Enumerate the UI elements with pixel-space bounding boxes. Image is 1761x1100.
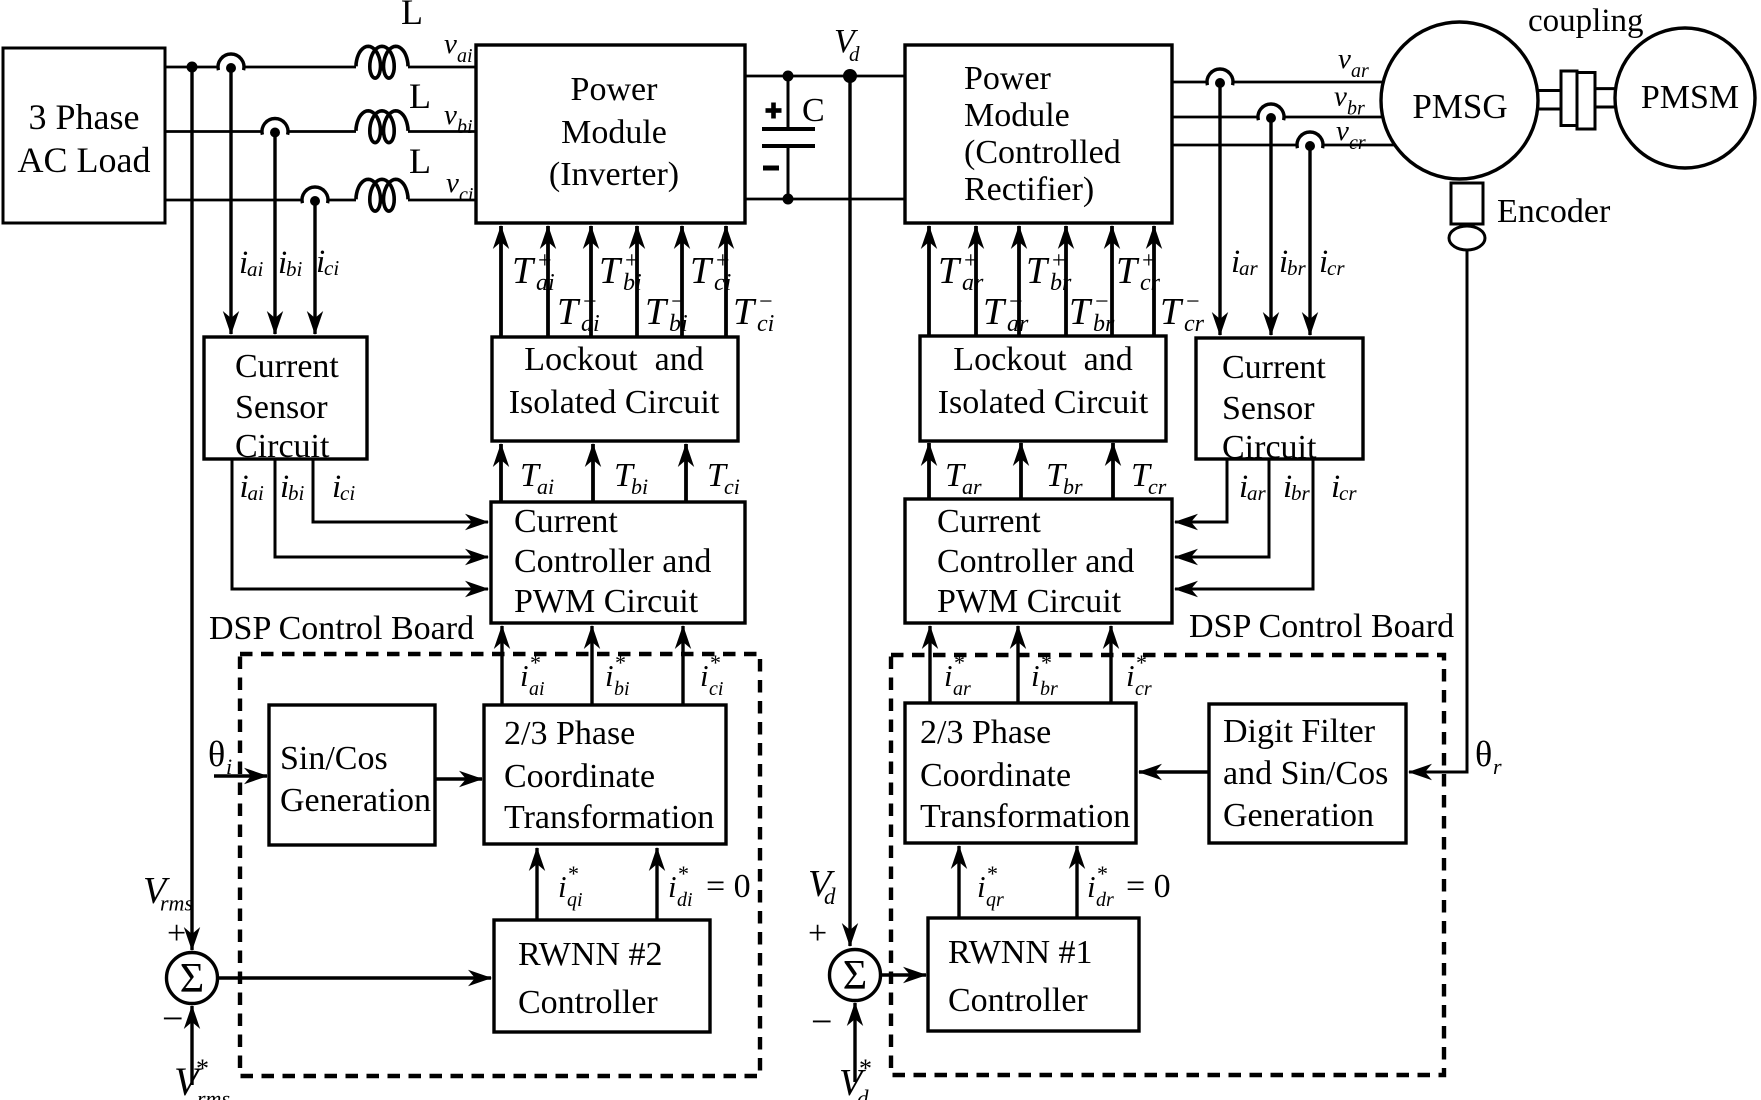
wire: i*_qr RWNN#1 to transform xyxy=(957,846,960,918)
wire: i_ai feedback into PWM (inverter side) xyxy=(232,459,488,589)
wire: gate signal 1 lockout to inverter xyxy=(499,226,503,337)
svg-text:ci: ci xyxy=(714,270,731,296)
svg-text:ai: ai xyxy=(247,257,264,281)
svg-text:*: * xyxy=(859,1054,872,1083)
wire: i_ci feedback into PWM (inverter side) xyxy=(313,459,488,522)
svg-text:ai: ai xyxy=(248,481,265,505)
svg-text:Circuit: Circuit xyxy=(235,428,330,465)
svg-text:*: * xyxy=(1136,650,1147,675)
wire: theta_r from encoder to Digit Filter xyxy=(1409,250,1467,772)
label: T+_ar xyxy=(938,248,984,296)
wire: gate signal 4 lockout to rectifier xyxy=(1064,226,1068,336)
wire: T_bi PWM to lockout (inverter side) xyxy=(591,444,595,502)
svg-text:−: − xyxy=(811,1001,832,1043)
label: V*_rms xyxy=(174,1054,230,1100)
svg-text:*: * xyxy=(530,650,541,675)
svg-text:Module: Module xyxy=(561,114,667,151)
svg-text:*: * xyxy=(710,650,721,675)
capacitor C (DC link) xyxy=(762,76,815,199)
label: i*_ci xyxy=(700,650,723,700)
svg-text:ci: ci xyxy=(709,678,723,700)
svg-text:bi: bi xyxy=(457,116,473,138)
wire: T_ci PWM to lockout (inverter side) xyxy=(684,444,688,502)
svg-text:bi: bi xyxy=(623,270,642,296)
label: T+_ci xyxy=(690,248,731,296)
label: T+_bi xyxy=(599,248,642,296)
label: v_br xyxy=(1334,81,1365,120)
label: i_br (feedback) xyxy=(1283,469,1311,505)
wire: i*_cr reference into PWM (rectifier side) xyxy=(1109,626,1112,703)
svg-text:cr: cr xyxy=(1327,256,1345,280)
svg-text:Current: Current xyxy=(514,503,618,540)
wire: gate signal 3 lockout to rectifier xyxy=(1017,226,1021,336)
shaft coupling to PMSM xyxy=(1595,89,1617,107)
svg-text:T: T xyxy=(645,291,669,333)
svg-text:Generation: Generation xyxy=(280,782,431,819)
label: v_ar xyxy=(1338,43,1369,82)
svg-text:cr: cr xyxy=(1140,270,1161,296)
svg-text:cr: cr xyxy=(1339,481,1357,505)
current sensor: phase b (rectifier side) xyxy=(1257,104,1285,123)
svg-text:T: T xyxy=(512,250,536,292)
svg-text:θ: θ xyxy=(1475,734,1492,774)
wire: gate signal 5 lockout to rectifier xyxy=(1110,226,1114,336)
wire: i_bi sensor to current sensor circuit xyxy=(273,132,276,335)
wire: gate signal 1 lockout to rectifier xyxy=(927,226,931,336)
wire: i_bi feedback into PWM (inverter side) xyxy=(275,459,488,557)
wire: V*_d reference into summer xyxy=(853,1003,856,1082)
svg-text:ar: ar xyxy=(1007,311,1029,337)
svg-text:coupling: coupling xyxy=(1528,3,1643,39)
wire: phase c from inductor to inverter xyxy=(408,199,476,202)
svg-text:L: L xyxy=(409,141,431,181)
inductor L (phase a) xyxy=(356,46,408,78)
svg-text:T: T xyxy=(733,291,757,333)
wire: T_ai PWM to lockout (inverter side) xyxy=(499,444,503,502)
label: theta_r xyxy=(1475,734,1502,779)
svg-text:Module: Module xyxy=(964,97,1070,134)
wire: Digit Filter to 2/3 phase transform (rectifier side) xyxy=(1139,770,1209,773)
wire: theta_i into Sin/Cos Generation xyxy=(214,774,267,777)
svg-text:ai: ai xyxy=(537,474,554,499)
svg-text:Isolated Circuit: Isolated Circuit xyxy=(509,384,720,421)
svg-text:= 0: = 0 xyxy=(1126,868,1171,905)
label: T_ci xyxy=(707,457,740,499)
svg-text:d: d xyxy=(824,884,836,909)
block: 2/3 Phase Coordinate Transformation (rectifier side) xyxy=(905,703,1136,843)
svg-text:i: i xyxy=(1087,869,1096,904)
svg-text:ai: ai xyxy=(457,45,473,67)
svg-text:v: v xyxy=(1336,115,1349,147)
label: T+_br xyxy=(1026,248,1072,296)
label: theta_i xyxy=(208,734,232,779)
svg-text:L: L xyxy=(409,76,431,116)
label: T_bi xyxy=(614,457,648,499)
svg-text:ci: ci xyxy=(324,256,339,280)
svg-text:Controller and: Controller and xyxy=(514,543,711,580)
svg-text:Rectifier): Rectifier) xyxy=(964,171,1094,208)
svg-text:Encoder: Encoder xyxy=(1497,193,1611,230)
svg-text:cr: cr xyxy=(1148,474,1167,499)
label: i_ci (sensor output) xyxy=(316,244,339,280)
wire: i*_dr RWNN#1 to transform xyxy=(1075,846,1078,918)
svg-text:Power: Power xyxy=(964,60,1052,97)
svg-text:*: * xyxy=(1097,861,1108,886)
wire: phase c rectifier to PMSG xyxy=(1172,144,1394,147)
svg-text:i: i xyxy=(605,658,614,693)
block: Current Controller and PWM Circuit (rectifier side) xyxy=(905,499,1172,623)
svg-text:T: T xyxy=(557,291,581,333)
svg-text:Sensor: Sensor xyxy=(235,389,328,426)
block: Power Module (Inverter) U1 xyxy=(476,45,745,223)
svg-text:DSP Control Board: DSP Control Board xyxy=(1189,608,1454,645)
svg-text:Σ: Σ xyxy=(180,956,204,1002)
svg-text:Controller: Controller xyxy=(518,984,658,1021)
svg-text:qr: qr xyxy=(986,889,1004,911)
summer (Vrms loop) xyxy=(167,953,218,1004)
wire: phase a rectifier to PMSG xyxy=(1172,81,1383,84)
label: i*_di = 0 xyxy=(668,861,751,911)
wire: gate signal 5 lockout to inverter xyxy=(680,226,684,337)
svg-text:Transformation: Transformation xyxy=(920,798,1130,835)
label: v_ci xyxy=(446,167,473,206)
wire: i*_ci reference into PWM (inverter side) xyxy=(681,626,684,705)
label: i_ai (feedback) xyxy=(240,469,265,505)
svg-text:RWNN #2: RWNN #2 xyxy=(518,936,663,973)
wire: i_ai sensor to current sensor circuit xyxy=(229,67,232,334)
svg-text:i: i xyxy=(1031,658,1040,693)
svg-text:v: v xyxy=(446,167,459,199)
wire: phase a from AC load to inductor xyxy=(165,66,356,69)
svg-text:bi: bi xyxy=(631,474,648,499)
wire: i_cr feedback into PWM (rectifier side) xyxy=(1175,459,1313,589)
node: Vrms sense tap xyxy=(187,62,198,73)
svg-text:br: br xyxy=(1093,311,1115,337)
svg-text:di: di xyxy=(677,889,693,911)
svg-text:v: v xyxy=(444,99,457,131)
svg-text:rms: rms xyxy=(197,1086,230,1100)
label: i*_dr = 0 xyxy=(1087,861,1171,911)
svg-text:Isolated Circuit: Isolated Circuit xyxy=(938,384,1149,421)
wire: DC bus negative xyxy=(745,198,905,201)
wire: Vrms sense line down to summer xyxy=(190,67,193,950)
wire: phase c from AC load to inductor xyxy=(165,199,356,202)
svg-text:ci: ci xyxy=(724,474,740,499)
shaft PMSG to coupling xyxy=(1536,91,1562,110)
svg-text:Current: Current xyxy=(1222,349,1326,386)
label: i*_ar xyxy=(944,650,971,700)
svg-text:ci: ci xyxy=(459,184,473,206)
svg-text:Σ: Σ xyxy=(843,953,867,999)
svg-text:(Controlled: (Controlled xyxy=(964,134,1121,171)
svg-text:ar: ar xyxy=(1351,60,1369,82)
wire: Sin/Cos Generation to 2/3 phase transform xyxy=(435,777,482,780)
svg-text:*: * xyxy=(954,650,965,675)
svg-text:ai: ai xyxy=(529,678,545,700)
svg-text:i: i xyxy=(944,658,953,693)
junction: capacitor on DC+ bus xyxy=(783,71,794,82)
label: T-_ai xyxy=(557,289,600,337)
block: Sin/Cos Generation xyxy=(269,705,435,845)
svg-text:θ: θ xyxy=(208,734,225,774)
label: i*_cr xyxy=(1126,650,1152,700)
svg-text:T: T xyxy=(599,250,623,292)
wire: gate signal 3 lockout to inverter xyxy=(589,226,593,337)
label: i*_br xyxy=(1031,650,1058,700)
svg-text:bi: bi xyxy=(286,257,303,281)
svg-text:RWNN #1: RWNN #1 xyxy=(948,934,1093,971)
wire: i_ar feedback into PWM (rectifier side) xyxy=(1175,459,1227,522)
svg-text:C: C xyxy=(802,92,825,129)
block: Lockout and Isolated Circuit (rectifier side) xyxy=(920,336,1166,441)
wire: T_ar PWM to lockout (rectifier side) xyxy=(927,443,931,499)
label: v_cr xyxy=(1336,115,1366,154)
wire: i*_br reference into PWM (rectifier side) xyxy=(1016,626,1019,703)
label: i_cr (feedback) xyxy=(1331,469,1357,505)
svg-text:T: T xyxy=(1160,291,1184,333)
label: i_br (sensor output) xyxy=(1279,244,1307,280)
label: i_bi (feedback) xyxy=(280,469,305,505)
label: i*_ai xyxy=(520,650,545,700)
svg-text:i: i xyxy=(977,869,986,904)
wire: T_br PWM to lockout (rectifier side) xyxy=(1019,443,1023,499)
svg-text:br: br xyxy=(1291,481,1311,505)
label: T-_br xyxy=(1069,289,1115,337)
svg-text:i: i xyxy=(520,658,529,693)
svg-text:bi: bi xyxy=(288,481,305,505)
wire: phase a from inductor to inverter xyxy=(408,66,476,69)
label: i*_qi xyxy=(558,861,583,911)
svg-text:br: br xyxy=(1040,678,1058,700)
svg-text:ai: ai xyxy=(581,311,600,337)
svg-text:*: * xyxy=(678,861,689,886)
junction: capacitor on DC- bus xyxy=(783,194,794,205)
svg-text:Generation: Generation xyxy=(1223,797,1374,834)
block: Digit Filter and Sin/Cos Generation xyxy=(1209,704,1406,843)
svg-text:i: i xyxy=(668,869,677,904)
svg-text:PMSG: PMSG xyxy=(1412,87,1507,126)
svg-text:Power: Power xyxy=(571,71,659,108)
svg-text:(Inverter): (Inverter) xyxy=(549,156,679,193)
label: V_d (summer input) xyxy=(808,863,836,909)
label: + (capacitor polarity) xyxy=(766,103,782,119)
svg-text:d: d xyxy=(857,1086,869,1100)
block: Current Controller and PWM Circuit (inverter side) xyxy=(491,502,745,623)
svg-text:Lockout and: Lockout and xyxy=(953,341,1132,378)
svg-text:i: i xyxy=(558,869,567,904)
svg-text:T: T xyxy=(1116,250,1140,292)
summer (Vd loop) xyxy=(830,950,881,1001)
block: Current Sensor Circuit (rectifier side) xyxy=(1196,338,1363,466)
label: i_ci (feedback) xyxy=(332,469,355,505)
svg-text:Sensor: Sensor xyxy=(1222,390,1315,427)
svg-text:T: T xyxy=(690,250,714,292)
wire: i*_bi reference into PWM (inverter side) xyxy=(590,626,593,705)
label: T-_ci xyxy=(733,289,774,337)
block: Lockout and Isolated Circuit (inverter side) xyxy=(492,337,738,441)
wire: i_cr sensor to current sensor circuit xyxy=(1308,145,1311,335)
wire: Vrms error to RWNN#2 xyxy=(217,976,492,979)
svg-text:cr: cr xyxy=(1349,132,1366,154)
svg-text:3 Phase: 3 Phase xyxy=(29,97,140,137)
DSP Control Board boundary (rectifier side, dashed) xyxy=(891,655,1444,1075)
label: T_cr xyxy=(1131,457,1167,499)
label: T-_bi xyxy=(645,289,688,337)
svg-text:br: br xyxy=(1287,256,1307,280)
block: Current Sensor Circuit (inverter side) xyxy=(204,337,367,465)
wire: gate signal 6 lockout to rectifier xyxy=(1152,226,1156,336)
wire: i_br sensor to current sensor circuit xyxy=(1269,117,1272,335)
svg-text:i: i xyxy=(700,658,709,693)
wire: gate signal 2 lockout to rectifier xyxy=(974,226,978,336)
label: v_ai xyxy=(444,28,473,67)
wire: gate signal 2 lockout to inverter xyxy=(546,226,550,337)
label: T-_cr xyxy=(1160,289,1205,337)
label: i*_qr xyxy=(977,861,1004,911)
generator PMSG G1 xyxy=(1381,22,1538,179)
svg-text:Coordinate: Coordinate xyxy=(504,758,655,795)
label: T-_ar xyxy=(983,289,1029,337)
svg-text:r: r xyxy=(1493,754,1502,779)
svg-text:−: − xyxy=(162,998,183,1040)
wire: phase b rectifier to PMSG xyxy=(1172,116,1384,119)
node: Vd sense tap on DC+ bus xyxy=(843,69,857,83)
svg-text:AC Load: AC Load xyxy=(18,140,151,180)
current sensor: phase a (inverter side) xyxy=(217,54,245,73)
svg-text:rms: rms xyxy=(160,891,193,916)
svg-text:qi: qi xyxy=(567,889,583,911)
block: RWNN #2 Controller xyxy=(494,920,710,1032)
label: T_br xyxy=(1046,457,1083,499)
DSP Control Board boundary (inverter side, dashed) xyxy=(240,654,760,1076)
svg-text:*: * xyxy=(1041,650,1052,675)
svg-text:*: * xyxy=(568,861,579,886)
wire: phase b from AC load to inductor xyxy=(165,130,356,133)
svg-text:2/3 Phase: 2/3 Phase xyxy=(504,715,635,752)
svg-text:Current: Current xyxy=(235,348,339,385)
wire: i*_di RWNN#2 to transform xyxy=(655,848,658,920)
label: - (capacitor polarity) xyxy=(763,166,779,171)
svg-text:d: d xyxy=(849,42,860,66)
current sensor: phase b (inverter side) xyxy=(261,119,289,138)
svg-text:ar: ar xyxy=(1239,256,1259,280)
current sensor: phase c (inverter side) xyxy=(301,187,329,206)
label: i_ai (sensor output) xyxy=(239,245,264,281)
svg-text:br: br xyxy=(1063,474,1083,499)
svg-text:ar: ar xyxy=(962,270,984,296)
svg-text:bi: bi xyxy=(614,678,630,700)
block: Power Module (Controlled Rectifier) U2 xyxy=(905,45,1172,223)
svg-text:+: + xyxy=(167,915,186,952)
svg-text:and Sin/Cos: and Sin/Cos xyxy=(1223,755,1388,792)
svg-text:ar: ar xyxy=(953,678,971,700)
current sensor: phase a (rectifier side) xyxy=(1206,69,1234,88)
svg-text:bi: bi xyxy=(669,311,688,337)
wire: i_ar sensor to current sensor circuit xyxy=(1218,82,1221,335)
block: 3 Phase AC Load xyxy=(3,48,165,223)
svg-text:*: * xyxy=(196,1054,209,1083)
wire: V*_rms reference into summer xyxy=(190,1006,193,1085)
label: T_ai xyxy=(520,457,554,499)
wire: i_ci sensor to current sensor circuit xyxy=(313,200,316,334)
svg-text:cr: cr xyxy=(1135,678,1152,700)
svg-text:T: T xyxy=(1026,250,1050,292)
motor PMSM M1 xyxy=(1615,28,1755,168)
block: 2/3 Phase Coordinate Transformation (inverter side) xyxy=(484,705,726,844)
wire: i*_qi RWNN#2 to transform xyxy=(535,848,538,920)
svg-text:*: * xyxy=(987,861,998,886)
label: i_bi (sensor output) xyxy=(278,245,303,281)
svg-text:ci: ci xyxy=(757,311,774,337)
svg-text:v: v xyxy=(1338,43,1351,75)
svg-text:ar: ar xyxy=(962,474,982,499)
svg-text:Digit Filter: Digit Filter xyxy=(1223,713,1376,750)
svg-text:*: * xyxy=(615,650,626,675)
label: i_cr (sensor output) xyxy=(1319,244,1345,280)
inductor L (phase b) xyxy=(356,111,408,143)
wire: i*_ar reference into PWM (rectifier side) xyxy=(928,626,931,703)
svg-text:Transformation: Transformation xyxy=(504,799,714,836)
svg-text:cr: cr xyxy=(1184,311,1205,337)
label: V_d (DC bus voltage) xyxy=(834,23,860,66)
label: T_ar xyxy=(945,457,982,499)
label: T+_cr xyxy=(1116,248,1161,296)
wire: DC bus positive xyxy=(745,75,905,78)
svg-text:Controller: Controller xyxy=(948,982,1088,1019)
label: i_ar (feedback) xyxy=(1239,469,1267,505)
svg-text:L: L xyxy=(401,0,423,32)
svg-text:Current: Current xyxy=(937,503,1041,540)
current sensor: phase c (rectifier side) xyxy=(1296,132,1324,151)
coupling flange right xyxy=(1577,73,1595,130)
svg-text:T: T xyxy=(938,250,962,292)
inductor L (phase c) xyxy=(356,179,408,211)
wire: T_cr PWM to lockout (rectifier side) xyxy=(1111,443,1115,499)
svg-text:v: v xyxy=(1334,81,1347,113)
svg-text:DSP Control Board: DSP Control Board xyxy=(209,610,474,647)
svg-text:ci: ci xyxy=(340,481,355,505)
wire: Vd sense line down to summer xyxy=(848,76,851,946)
svg-text:PWM Circuit: PWM Circuit xyxy=(514,583,699,620)
wire: i*_ai reference into PWM (inverter side) xyxy=(500,626,503,705)
svg-text:ar: ar xyxy=(1247,481,1267,505)
wire: Vd error to RWNN#1 xyxy=(880,973,927,976)
svg-text:2/3 Phase: 2/3 Phase xyxy=(920,714,1051,751)
svg-text:= 0: = 0 xyxy=(706,868,751,905)
label: i_ar (sensor output) xyxy=(1231,244,1259,280)
label: V*_d xyxy=(839,1054,872,1100)
label: i*_bi xyxy=(605,650,630,700)
svg-text:dr: dr xyxy=(1096,889,1114,911)
svg-text:Lockout and: Lockout and xyxy=(524,341,703,378)
label: V_rms xyxy=(143,870,193,916)
svg-text:ai: ai xyxy=(536,270,555,296)
svg-text:T: T xyxy=(1069,291,1093,333)
wire: gate signal 4 lockout to inverter xyxy=(635,226,639,337)
coupling flange left xyxy=(1561,71,1577,126)
svg-text:v: v xyxy=(444,28,457,60)
block: RWNN #1 Controller xyxy=(928,918,1139,1031)
svg-text:PWM Circuit: PWM Circuit xyxy=(937,583,1122,620)
svg-text:PMSM: PMSM xyxy=(1641,79,1739,116)
svg-text:br: br xyxy=(1347,98,1365,120)
encoder body xyxy=(1449,183,1485,250)
label: v_bi xyxy=(444,99,473,138)
svg-text:T: T xyxy=(983,291,1007,333)
label: T+_ai xyxy=(512,248,555,296)
wire: phase b from inductor to inverter xyxy=(408,130,476,133)
svg-text:+: + xyxy=(808,915,827,952)
